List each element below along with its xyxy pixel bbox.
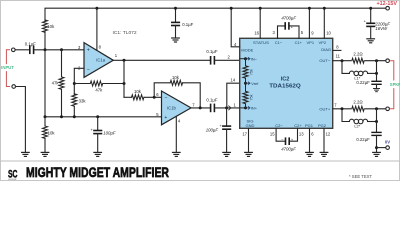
svg-text:−: − bbox=[87, 68, 90, 74]
border frame bbox=[1, 1, 400, 181]
ground zobel upper bbox=[373, 89, 379, 92]
svg-text:+: + bbox=[219, 123, 222, 128]
svg-text:2: 2 bbox=[228, 55, 231, 60]
svg-text:7: 7 bbox=[334, 102, 337, 107]
wire VP1 pin9 bbox=[308, 8, 310, 38]
node bias bbox=[44, 48, 47, 51]
input terminal lower bbox=[12, 85, 16, 89]
capacitor C8 0.1uF decoupling bbox=[175, 8, 177, 22]
svg-text:IN+: IN+ bbox=[251, 106, 258, 111]
0V terminal bbox=[377, 147, 386, 149]
capacitor C5 100uF Vref bbox=[226, 108, 228, 126]
inductor L1 bbox=[342, 61, 377, 76]
input bracket bbox=[6, 50, 9, 87]
resistor R3 47k feedback bbox=[74, 83, 90, 85]
ground pin17 bbox=[245, 152, 253, 156]
pin text IN+ bbox=[247, 107, 250, 110]
svg-text:100µF: 100µF bbox=[206, 127, 219, 132]
supply rail V+ bbox=[45, 8, 386, 20]
OUT- pin11 wire bbox=[333, 60, 386, 62]
wire divider bbox=[44, 32, 46, 117]
svg-text:10k: 10k bbox=[172, 75, 180, 80]
wire IC1a out bbox=[113, 59, 209, 61]
svg-text:IC2: IC2 bbox=[281, 76, 290, 82]
svg-text:VP2: VP2 bbox=[319, 40, 327, 45]
wire MODE pin4 bbox=[231, 8, 240, 47]
wire to IC2 pin1 bbox=[215, 107, 239, 109]
svg-text:0.1µF: 0.1µF bbox=[206, 97, 217, 102]
svg-text:+: + bbox=[291, 24, 294, 29]
pin 4 wire to ground bbox=[175, 117, 177, 153]
svg-text:SPKR: SPKR bbox=[390, 82, 400, 87]
svg-text:10k: 10k bbox=[48, 130, 56, 135]
internal resistor 75k lower bbox=[245, 83, 247, 91]
wire PG2 pin12 bbox=[323, 128, 325, 152]
svg-text:* SEE TEXT: * SEE TEXT bbox=[349, 174, 372, 179]
capacitor C6 4700uF pump top bbox=[278, 26, 285, 38]
svg-text:0.22µF: 0.22µF bbox=[356, 137, 370, 142]
svg-text:33k: 33k bbox=[79, 98, 87, 103]
svg-text:8: 8 bbox=[336, 45, 339, 50]
svg-text:5: 5 bbox=[301, 30, 304, 35]
ground Vref cap bbox=[223, 152, 231, 156]
resistor R6 10k bbox=[132, 95, 144, 100]
capacitor C1 0.1uF input bbox=[30, 46, 34, 53]
ground 0V bbox=[373, 152, 381, 156]
inductor L2 bbox=[342, 109, 377, 124]
svg-text:C1−: C1− bbox=[275, 40, 283, 45]
svg-text:4700µF: 4700µF bbox=[281, 16, 296, 21]
svg-text:VP1: VP1 bbox=[307, 40, 315, 45]
resistor R8 2.2ohm bbox=[351, 58, 365, 64]
ground IC1b bbox=[173, 152, 181, 156]
svg-text:+: + bbox=[87, 48, 90, 54]
svg-text:MODE: MODE bbox=[241, 47, 253, 52]
pin text IN- bbox=[247, 57, 250, 60]
resistor R9 2.2ohm bbox=[351, 106, 365, 112]
svg-text:0.1µF: 0.1µF bbox=[182, 22, 193, 27]
svg-text:6: 6 bbox=[156, 92, 159, 97]
svg-text:4700µF: 4700µF bbox=[281, 147, 296, 152]
svg-text:IC1a: IC1a bbox=[96, 58, 106, 63]
capacitor C7 4700uF pump bottom bbox=[276, 128, 285, 141]
svg-text:PG2: PG2 bbox=[318, 123, 327, 128]
svg-text:4: 4 bbox=[178, 119, 181, 124]
svg-text:5: 5 bbox=[156, 112, 159, 117]
svg-text:13: 13 bbox=[299, 132, 304, 137]
speaker bracket bbox=[391, 61, 394, 109]
svg-text:IC1b: IC1b bbox=[167, 106, 177, 111]
svg-text:SILICON CHIP: SILICON CHIP bbox=[8, 179, 16, 181]
svg-text:6: 6 bbox=[311, 132, 314, 137]
svg-text:9: 9 bbox=[311, 31, 314, 36]
ground pin12 bbox=[320, 152, 328, 156]
svg-text:−: − bbox=[164, 95, 167, 101]
svg-text:17: 17 bbox=[242, 132, 247, 137]
svg-text:+: + bbox=[164, 115, 167, 121]
svg-text:15: 15 bbox=[270, 132, 275, 137]
svg-text:+12-15V: +12-15V bbox=[376, 1, 397, 7]
svg-text:PG1: PG1 bbox=[305, 123, 314, 128]
svg-text:C2−: C2− bbox=[275, 123, 283, 128]
supply terminal bbox=[386, 6, 390, 10]
svg-text:0.1µF: 0.1µF bbox=[25, 42, 36, 47]
svg-text:1: 1 bbox=[234, 102, 237, 107]
pin 8 wire bbox=[96, 8, 98, 50]
svg-text:12: 12 bbox=[326, 132, 331, 137]
svg-text:75k: 75k bbox=[250, 69, 254, 75]
svg-text:IC1: TL072: IC1: TL072 bbox=[113, 30, 137, 36]
svg-text:7: 7 bbox=[192, 102, 195, 107]
wire IC1b out bbox=[191, 107, 210, 109]
node bbox=[60, 48, 63, 51]
svg-text:OUT−: OUT− bbox=[319, 58, 330, 63]
svg-text:75k: 75k bbox=[250, 94, 254, 100]
schematic bottom separator bbox=[1, 160, 399, 162]
speaker terminal upper bbox=[386, 59, 390, 63]
svg-text:0.1µF: 0.1µF bbox=[206, 49, 217, 54]
svg-text:14: 14 bbox=[231, 77, 236, 82]
resistor R4 33k bbox=[72, 94, 77, 106]
resistor R7 10k feedback bbox=[170, 80, 182, 85]
wire to IC2 pin2 bbox=[215, 59, 239, 61]
ground bypass bbox=[94, 152, 102, 156]
svg-text:10k: 10k bbox=[134, 89, 142, 94]
capacitor C3 0.1uF coupling upper bbox=[211, 57, 215, 64]
svg-text:8: 8 bbox=[99, 44, 102, 49]
svg-text:Vref: Vref bbox=[251, 81, 259, 86]
svg-text:100µF: 100µF bbox=[103, 131, 116, 136]
feedback loop IC1b bbox=[154, 83, 170, 98]
wire pin2 to node A bbox=[74, 68, 84, 95]
input terminal upper bbox=[12, 48, 16, 52]
speaker terminal lower bbox=[386, 107, 390, 111]
wire to IC1a pin3 bbox=[35, 49, 85, 51]
svg-text:GND: GND bbox=[246, 123, 255, 128]
node B bbox=[123, 82, 126, 85]
pin text Vref bbox=[247, 82, 250, 85]
capacitor C2 100uF bypass bbox=[97, 117, 99, 130]
svg-text:C2+: C2+ bbox=[294, 123, 302, 128]
wire STATUS pin16 bbox=[259, 8, 261, 38]
wire input lower bbox=[16, 87, 26, 153]
wire SIG GND pin17 bbox=[248, 128, 250, 152]
capacitor C10 0.22uF zobel upper bbox=[376, 61, 378, 81]
svg-text:C1+: C1+ bbox=[295, 40, 303, 45]
svg-text:TDA1562Q: TDA1562Q bbox=[269, 84, 301, 90]
capacitor C4 0.1uF coupling lower bbox=[211, 104, 215, 111]
svg-text:L2*: L2* bbox=[354, 124, 360, 129]
wire PG1 pin6 bbox=[309, 128, 311, 152]
ground decoupling bbox=[172, 38, 180, 42]
IC2 TDA1562Q bbox=[240, 38, 333, 128]
svg-text:3: 3 bbox=[272, 30, 275, 35]
svg-text:47k: 47k bbox=[52, 81, 60, 86]
node C bbox=[153, 96, 156, 99]
capacitor C11 0.22uF zobel lower bbox=[376, 109, 378, 132]
wire VP2 pin10 bbox=[323, 8, 325, 38]
svg-text:16: 16 bbox=[254, 31, 259, 36]
wire input upper bbox=[15, 49, 29, 51]
node A bbox=[73, 82, 76, 85]
ground pin6 bbox=[306, 152, 314, 156]
svg-text:IN−: IN− bbox=[251, 56, 258, 61]
svg-text:1: 1 bbox=[115, 53, 118, 58]
svg-text:MIGHTY MIDGET AMPLIFIER: MIGHTY MIDGET AMPLIFIER bbox=[26, 165, 169, 181]
svg-text:0V: 0V bbox=[385, 139, 390, 144]
resistor R1 10k (divider top) bbox=[43, 20, 48, 32]
resistor R5 10k (divider bottom) bbox=[43, 126, 48, 138]
ground input bbox=[22, 152, 30, 156]
svg-text:+: + bbox=[91, 127, 94, 132]
svg-text:STATUS: STATUS bbox=[253, 40, 269, 45]
wire Vref pin14 bbox=[227, 83, 240, 108]
ground reservoir bbox=[367, 39, 375, 43]
op-amp IC1b bbox=[162, 91, 192, 125]
capacitor C9 2200uF reservoir bbox=[370, 8, 372, 23]
svg-text:47k: 47k bbox=[95, 88, 103, 93]
DIAG pin8 stub bbox=[333, 49, 341, 51]
wire to 10k bbox=[124, 96, 131, 98]
svg-text:10: 10 bbox=[326, 31, 331, 36]
svg-text:DIAG: DIAG bbox=[321, 47, 331, 52]
svg-text:2.2Ω: 2.2Ω bbox=[353, 51, 362, 56]
svg-text:OUT+: OUT+ bbox=[319, 107, 330, 112]
arrowhead on IN+ wire bbox=[229, 106, 231, 110]
svg-text:INPUT: INPUT bbox=[1, 65, 14, 70]
bias rail bbox=[45, 116, 162, 118]
ground divider bbox=[41, 152, 49, 156]
svg-text:16VW: 16VW bbox=[375, 26, 388, 31]
OUT+ pin7 wire bbox=[333, 108, 386, 110]
internal input network bbox=[240, 58, 246, 60]
op-amp IC1a bbox=[84, 43, 113, 78]
internal resistor 75k upper bbox=[245, 59, 247, 66]
wire node B down bbox=[123, 60, 125, 97]
svg-text:10k: 10k bbox=[47, 24, 55, 29]
svg-text:11: 11 bbox=[336, 53, 341, 58]
svg-text:2.2Ω: 2.2Ω bbox=[353, 99, 362, 104]
svg-text:0.22µF: 0.22µF bbox=[356, 80, 370, 85]
resistor R2 47k (to bias rail) bbox=[61, 50, 63, 77]
